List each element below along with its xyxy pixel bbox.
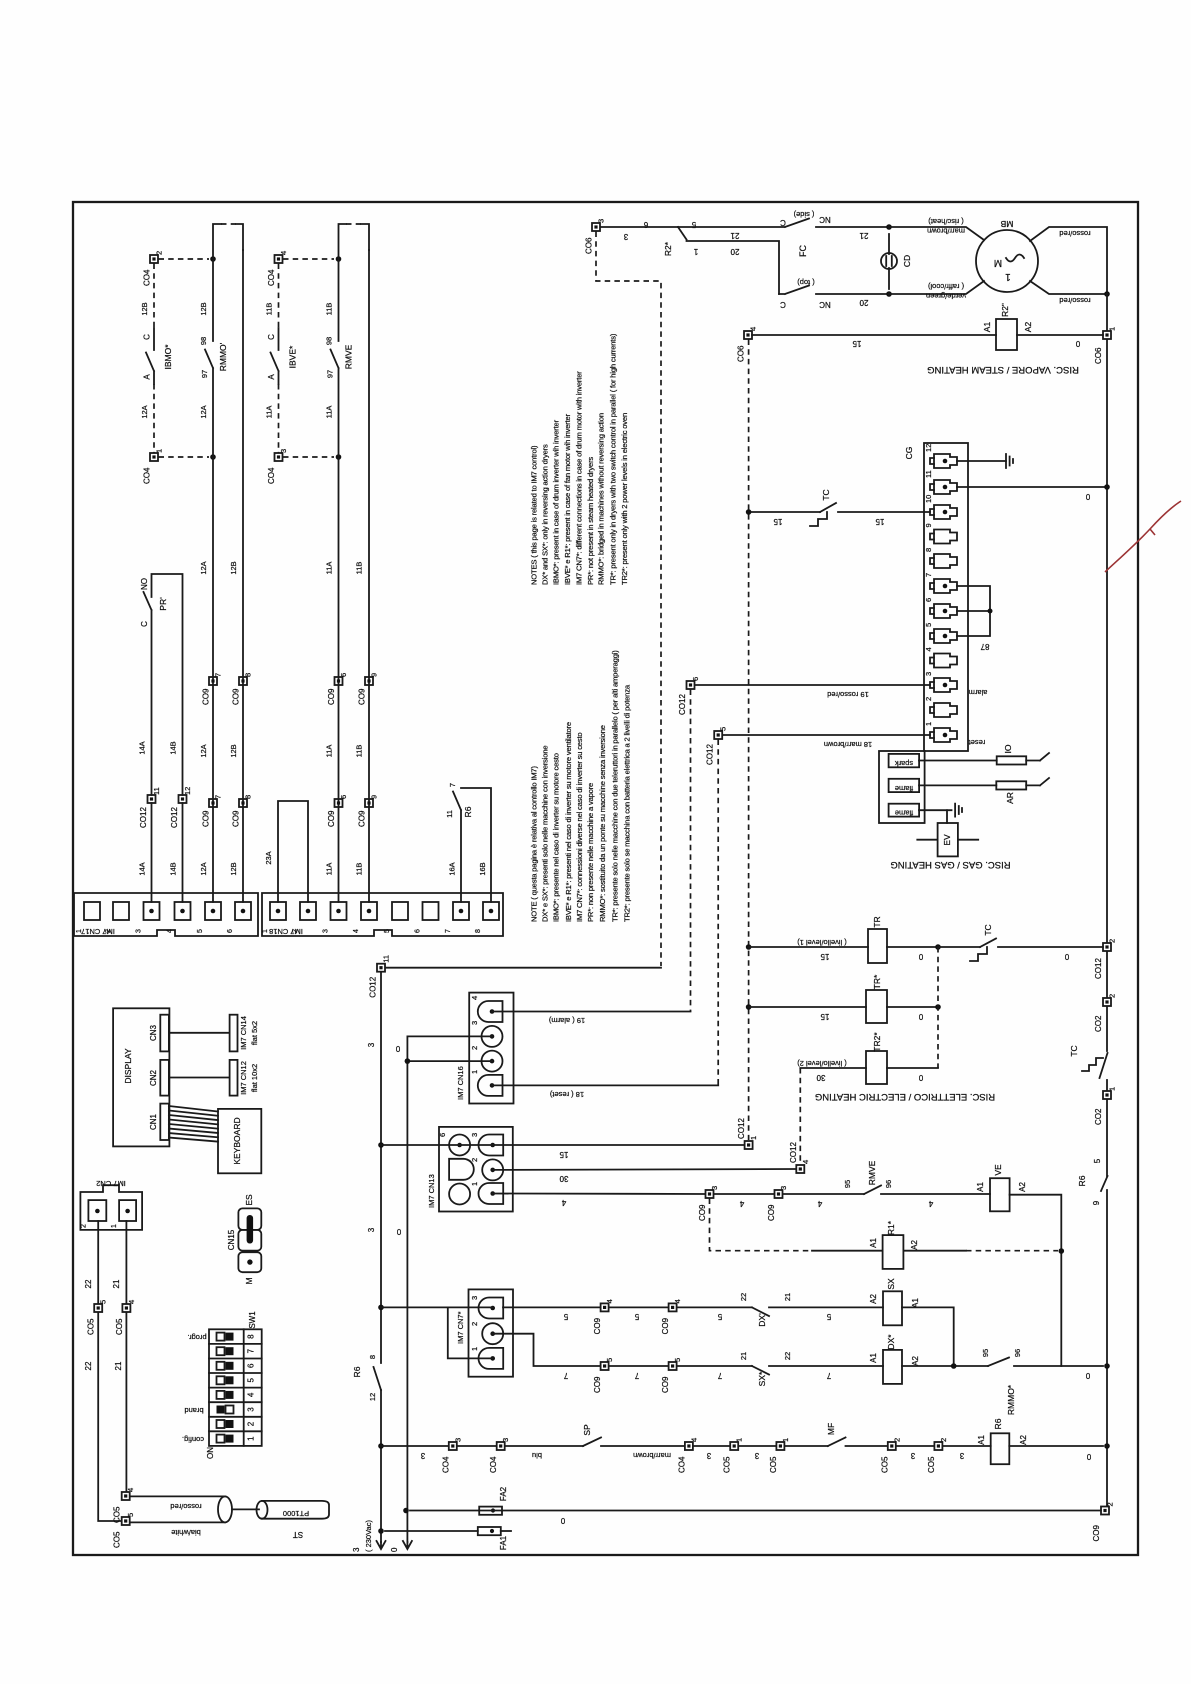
connector tab IM7 CN12 (230, 1060, 259, 1096)
svg-text:SP: SP (582, 1424, 592, 1436)
svg-text:1: 1 (470, 1347, 479, 1351)
display board (113, 1008, 169, 1146)
wire SP row b (457, 1445, 496, 1447)
svg-text:5: 5 (634, 1312, 639, 1321)
junction TR* 0 dashed (935, 1004, 941, 1010)
relay coil DX* (869, 1334, 920, 1384)
switch IBMO* (inverter bypass) (140, 302, 173, 384)
wire SP row i (896, 1445, 934, 1447)
wire CO12-11 to dashed (386, 967, 662, 969)
svg-text:30: 30 (816, 1073, 825, 1082)
svg-text:bia/white: bia/white (171, 1528, 201, 1537)
svg-text:12A: 12A (199, 405, 208, 418)
svg-text:alarm: alarm (969, 688, 988, 697)
svg-text:TR2*: presente solo se macchin: TR2*: presente solo se macchina con batt… (622, 684, 631, 922)
connector CO4 pin 3 (sp a) (441, 1438, 462, 1473)
display tab CN1 (149, 1104, 169, 1140)
svg-text:A1: A1 (869, 1238, 878, 1248)
svg-text:IM7 CN7*: connessioni diverse: IM7 CN7*: connessioni diverse nel caso d… (575, 733, 584, 922)
junction rail RMMO bottom (210, 454, 216, 460)
svg-text:0: 0 (918, 1073, 923, 1082)
spark output box (889, 754, 920, 768)
CG terminal 12 (924, 444, 957, 468)
svg-text:R1*: R1* (886, 1220, 896, 1235)
wire 22 lower (98, 1313, 121, 1522)
svg-text:8: 8 (244, 673, 253, 677)
relay contact R6 (in bus) (1077, 1158, 1108, 1205)
svg-text:IBMO*: present in case of drum: IBMO*: present in case of drum inverter … (552, 419, 561, 585)
svg-text:FA1: FA1 (499, 1535, 508, 1550)
wire 5 row d (769, 1306, 883, 1308)
svg-text:15: 15 (820, 952, 829, 961)
svg-text:CO6: CO6 (1094, 347, 1103, 364)
svg-text:2: 2 (81, 1224, 88, 1228)
svg-text:1: 1 (470, 1070, 479, 1074)
svg-text:0: 0 (918, 1012, 923, 1021)
svg-text:10: 10 (924, 495, 933, 503)
svg-text:21: 21 (739, 1352, 748, 1360)
svg-text:CO9: CO9 (1092, 1525, 1101, 1542)
fuse FA2 (410, 1486, 508, 1514)
gas control box outline (879, 751, 925, 823)
svg-text:6: 6 (415, 929, 422, 933)
svg-text:NOTE ( questa pagina è relati: NOTE ( questa pagina è relativa al contr… (529, 766, 538, 922)
flame output box 1 (889, 779, 920, 793)
svg-text:96: 96 (1013, 1349, 1022, 1357)
svg-text:7: 7 (826, 1371, 831, 1380)
flame resistor AR with electrode (919, 778, 1049, 804)
junction TR feed (746, 944, 752, 950)
svg-text:marr/brown: marr/brown (633, 1451, 671, 1460)
sensor PT1000 (ST) (232, 1501, 329, 1539)
svg-text:3: 3 (352, 1547, 361, 1552)
dashed branch IBMO* column upper (153, 264, 155, 329)
wire motor top lead (889, 227, 984, 240)
thermostat TC (steam) (749, 489, 930, 526)
wire 4 row c (783, 1193, 864, 1195)
svg-text:TR*: TR* (872, 974, 882, 989)
svg-text:5: 5 (126, 1513, 135, 1517)
svg-text:CO5: CO5 (927, 1456, 936, 1473)
svg-text:1: 1 (155, 449, 164, 453)
junction motor bottom (886, 291, 892, 297)
svg-text:CO5: CO5 (880, 1456, 889, 1473)
svg-text:21: 21 (783, 1293, 792, 1301)
wire CN16-2 to bus (410, 1060, 492, 1062)
wire 7 row b (609, 1365, 668, 1367)
svg-text:5: 5 (717, 1312, 722, 1321)
svg-text:7: 7 (247, 1348, 256, 1353)
svg-text:1: 1 (247, 1436, 256, 1441)
junction TR* feed (746, 1004, 752, 1010)
svg-text:CO5: CO5 (113, 1531, 122, 1548)
svg-text:5: 5 (247, 1378, 256, 1383)
wire 30 CN13-2 (493, 1168, 796, 1171)
svg-text:CO12: CO12 (139, 807, 148, 828)
svg-text:3: 3 (453, 1438, 462, 1442)
svg-text:flat 10x2: flat 10x2 (250, 1064, 259, 1092)
svg-text:15: 15 (852, 339, 861, 348)
svg-text:CG: CG (904, 447, 914, 460)
svg-text:1: 1 (924, 722, 933, 726)
svg-text:2: 2 (470, 1158, 479, 1162)
svg-text:11: 11 (152, 787, 161, 795)
red pen mark artifact (1105, 501, 1181, 572)
svg-text:( side): ( side) (793, 210, 814, 219)
svg-text:9: 9 (1092, 1200, 1101, 1205)
wire 5 row b (609, 1306, 668, 1308)
svg-text:CO5: CO5 (115, 1318, 124, 1335)
terminal strip CG outline (924, 443, 968, 751)
svg-text:4: 4 (561, 1198, 566, 1207)
svg-text:RMMO*: RMMO* (1006, 1384, 1016, 1415)
connector IM7 CN7* (456, 1289, 513, 1376)
svg-text:4: 4 (167, 929, 174, 933)
svg-text:1: 1 (1108, 1087, 1117, 1091)
svg-text:4: 4 (689, 1438, 698, 1442)
svg-text:22: 22 (84, 1361, 93, 1370)
relay coil TR2* (866, 1032, 887, 1084)
switch SP (door) (582, 1424, 601, 1446)
svg-text:8: 8 (247, 1334, 256, 1339)
svg-text:3: 3 (910, 1451, 915, 1460)
thermostat TC (electric, in bus) (1069, 1045, 1108, 1078)
wire rosso/red top (1030, 227, 1107, 294)
svg-text:C: C (140, 621, 149, 627)
svg-text:4: 4 (928, 1199, 933, 1208)
junction 3 bus FA1 (378, 1528, 384, 1534)
dashed wire CO9-3 to R1* (710, 1199, 813, 1251)
svg-text:M: M (244, 1277, 254, 1284)
svg-text:5: 5 (924, 623, 933, 627)
connector IM7 CN18 (262, 893, 503, 936)
svg-text:ON: ON (206, 1447, 215, 1459)
relay coil R6 (977, 1418, 1028, 1464)
svg-text:7: 7 (448, 783, 457, 787)
svg-text:CN15: CN15 (227, 1229, 236, 1250)
svg-text:A2: A2 (869, 1294, 878, 1304)
svg-text:verde/green: verde/green (926, 292, 966, 301)
switch RMMO* (aux contact) (981, 1349, 1103, 1415)
svg-text:1: 1 (470, 1182, 479, 1186)
svg-text:3: 3 (136, 929, 143, 933)
svg-text:CN2: CN2 (149, 1069, 158, 1086)
junction bus R6coil (1104, 1443, 1110, 1449)
svg-text:reset: reset (968, 738, 986, 747)
junction SX/DX* (951, 1363, 957, 1369)
svg-text:19 ( alarm): 19 ( alarm) (548, 1016, 585, 1025)
connector CO9 pin 8 (upper) (232, 673, 253, 705)
CG terminal 3 (924, 672, 957, 692)
svg-text:IM7 CN7*: IM7 CN7* (456, 1311, 465, 1344)
svg-text:TR: TR (872, 916, 882, 927)
wire 15 TR* (749, 1006, 866, 1008)
temperature probe sheath (130, 1496, 232, 1537)
svg-text:CO12: CO12 (789, 1142, 798, 1163)
svg-text:3: 3 (710, 1186, 719, 1190)
svg-text:11B: 11B (265, 303, 274, 316)
wire SP row f (739, 1445, 776, 1447)
CG terminal 11 (924, 470, 957, 494)
svg-text:3: 3 (367, 1227, 376, 1232)
dashed wire CO12-5 to CN16-1 (717, 740, 719, 1086)
svg-text:12B: 12B (229, 744, 238, 757)
bus 3 vertical (230V line) (380, 972, 382, 1542)
dashed wire TR2* to CO12-4 (799, 1068, 801, 1163)
svg-text:progr.: progr. (187, 1333, 206, 1342)
svg-text:( livello/level 2): ( livello/level 2) (797, 1059, 847, 1068)
connector CO5 pin 2 (a) (880, 1438, 901, 1473)
svg-text:15: 15 (773, 517, 782, 526)
rail 11A lower (338, 457, 340, 902)
connector CO6 pin 1 (on bus) (1094, 327, 1117, 364)
svg-text:A1: A1 (976, 1182, 985, 1192)
svg-text:TR2*: present only with 2 powe: TR2*: present only with 2 power levels i… (620, 413, 629, 585)
connector CO5 pin 1 (a) (723, 1438, 744, 1473)
flat cable CN2-CN12 (169, 1077, 230, 1079)
svg-text:CN3: CN3 (149, 1024, 158, 1041)
connector CO9 pin 9 (upper) (358, 673, 379, 705)
svg-text:A2: A2 (1019, 1435, 1028, 1445)
svg-text:SX: SX (886, 1278, 896, 1290)
svg-text:18 marr/brown: 18 marr/brown (824, 740, 872, 749)
svg-text:98: 98 (325, 337, 334, 345)
wire SP row c (505, 1445, 583, 1447)
connector CO5 pin 5 (upper) (87, 1300, 108, 1335)
svg-text:CO5: CO5 (723, 1456, 732, 1473)
junction rail RMVE bottom (336, 454, 342, 460)
svg-text:3: 3 (470, 1296, 479, 1300)
svg-text:6: 6 (438, 1133, 447, 1137)
svg-text:rosso/red: rosso/red (170, 1502, 201, 1511)
connector CO9 pin 6 (upper) (327, 673, 348, 705)
svg-text:16A: 16A (448, 862, 457, 875)
svg-text:22: 22 (739, 1293, 748, 1301)
junction rail RMMO top (210, 256, 216, 262)
svg-text:2: 2 (470, 1322, 479, 1326)
switch SX* (reversing contact) (739, 1352, 792, 1387)
svg-text:NC: NC (819, 215, 831, 224)
svg-text:TR2*: TR2* (872, 1032, 882, 1052)
svg-text:7: 7 (634, 1371, 639, 1380)
wire 15 steam coil (752, 334, 996, 336)
wire R1* A1 (812, 1250, 883, 1252)
relay contact R2* (changeover blade) (663, 227, 687, 256)
svg-text:PR*: not present in steam heat: PR*: not present in steam heated dryers (586, 457, 595, 585)
svg-text:11: 11 (382, 955, 391, 963)
svg-text:19 rosso/red: 19 rosso/red (827, 690, 869, 699)
svg-text:A2: A2 (911, 1356, 920, 1366)
svg-text:C: C (780, 300, 786, 309)
svg-text:3: 3 (247, 1407, 256, 1412)
svg-text:1: 1 (111, 1224, 118, 1228)
connector CO9 pin 7 (lower) (202, 795, 223, 827)
relay coil VE (976, 1164, 1027, 1211)
rail 14A lower (151, 803, 153, 902)
svg-text:CO9: CO9 (232, 810, 241, 827)
svg-text:R2*: R2* (663, 241, 673, 256)
svg-text:14A: 14A (138, 741, 147, 754)
svg-text:5: 5 (719, 727, 728, 731)
connector CO9 pin 4 (row5 a) (593, 1299, 614, 1334)
spark resistor IO with electrode (919, 744, 1049, 764)
wire 21 lower (125, 1313, 127, 1492)
svg-text:CO5: CO5 (87, 1318, 96, 1335)
svg-text:20: 20 (859, 298, 868, 307)
svg-text:0: 0 (1085, 492, 1090, 501)
connector CO6 pin 3 (585, 219, 606, 254)
svg-text:CO9: CO9 (698, 1204, 707, 1221)
CG terminal 5 (924, 623, 957, 643)
svg-text:21: 21 (114, 1361, 123, 1370)
svg-text:30: 30 (559, 1174, 568, 1183)
svg-text:0: 0 (1085, 1371, 1090, 1380)
svg-text:7: 7 (563, 1371, 568, 1380)
connector CO5 pin 1 (b) (769, 1438, 790, 1473)
page border frame (73, 202, 1138, 1555)
svg-text:R6: R6 (352, 1366, 362, 1377)
svg-text:8: 8 (475, 929, 482, 933)
switch RMVE (fan relay contact) (325, 259, 354, 457)
dashed branch IBVE* column lower (278, 384, 280, 453)
dashed wire CO4-3 to rail (283, 456, 334, 458)
dashed wire R1* A2 tie (966, 1250, 1058, 1252)
svg-text:RMMO*: bridged in machines wit: RMMO*: bridged in machines without rever… (597, 413, 606, 585)
relay coil R2" steam heating (982, 303, 1033, 350)
svg-text:CO2: CO2 (1094, 1108, 1103, 1125)
svg-text:97: 97 (326, 370, 335, 378)
connector CO12 pin 12 (ladder) (170, 787, 192, 828)
switch MF (micro filter) (826, 1423, 846, 1446)
dip switch SW1 (182, 1311, 262, 1459)
dashed wire CO12-6 to CN16-4 (690, 690, 692, 1012)
svg-text:5: 5 (673, 1358, 682, 1362)
svg-text:TR*: presente solo nelle macch: TR*: presente solo nelle macchine con du… (610, 650, 619, 922)
svg-text:SW1: SW1 (248, 1311, 257, 1329)
connector IM7 CN2 (80, 1179, 142, 1230)
CG terminal 9 (924, 523, 957, 543)
svg-text:0: 0 (395, 1044, 400, 1053)
motor M1 (MB) (976, 219, 1038, 292)
svg-text:5: 5 (197, 929, 204, 933)
svg-text:CD: CD (902, 255, 912, 267)
svg-text:CO9: CO9 (593, 1376, 602, 1393)
wire R1* A2 (903, 1250, 966, 1252)
dashed tie TR outputs (937, 947, 939, 1068)
connector CO12 pin 4 (789, 1142, 810, 1173)
junction 3 bus SP (378, 1443, 384, 1449)
svg-text:6: 6 (227, 929, 234, 933)
svg-text:2: 2 (247, 1421, 256, 1426)
svg-text:11A: 11A (325, 745, 334, 758)
svg-text:AR: AR (1005, 792, 1015, 804)
svg-text:1: 1 (735, 1438, 744, 1442)
svg-text:7: 7 (445, 929, 452, 933)
svg-text:5: 5 (99, 1300, 108, 1304)
svg-text:0: 0 (1064, 952, 1069, 961)
connector CO5 pin 4 (sensor) (113, 1488, 136, 1523)
svg-text:3: 3 (754, 1451, 759, 1460)
wire 0 steam coil to bus (1017, 334, 1103, 336)
bus 0 right segment 5 (1106, 1080, 1108, 1091)
svg-text:7: 7 (924, 573, 933, 577)
svg-text:0: 0 (918, 952, 923, 961)
svg-text:11A: 11A (325, 863, 334, 876)
svg-text:PR*: non presente nelle macchi: PR*: non presente nelle macchine a vapor… (586, 783, 595, 922)
svg-text:TC: TC (983, 924, 993, 935)
svg-text:2: 2 (1106, 1502, 1115, 1506)
svg-text:A: A (267, 374, 276, 380)
svg-text:RMVE: RMVE (867, 1160, 877, 1185)
svg-text:C: C (780, 218, 786, 227)
svg-text:CO12: CO12 (369, 976, 378, 997)
bus 0 right segment 7 (1106, 1190, 1108, 1506)
svg-text:2: 2 (924, 697, 933, 701)
connector CO4 pin 4 (267, 251, 288, 286)
svg-text:3: 3 (924, 672, 933, 676)
svg-text:2: 2 (155, 251, 164, 255)
svg-text:5: 5 (1093, 1158, 1102, 1163)
svg-text:RISC. VAPORE / STEAM HEATING: RISC. VAPORE / STEAM HEATING (927, 364, 1079, 375)
wire 0 CG11 to bus (957, 486, 1104, 488)
wire motor bottom lead (889, 281, 984, 294)
connector CO9 pin 5 (row7 b) (661, 1358, 682, 1393)
svg-text:12A: 12A (199, 561, 208, 574)
svg-text:FC: FC (798, 245, 808, 257)
svg-text:21: 21 (730, 231, 739, 240)
connector CO9 pin 8 (lower) (232, 795, 253, 827)
rail 14B lower (182, 803, 184, 902)
relay coil R1* (869, 1220, 919, 1269)
svg-text:IM7 CN14: IM7 CN14 (239, 1016, 248, 1050)
svg-text:4: 4 (739, 1199, 744, 1208)
svg-text:4: 4 (126, 1488, 135, 1492)
svg-text:12A: 12A (199, 744, 208, 757)
svg-text:CO6: CO6 (585, 237, 594, 254)
svg-text:CO9: CO9 (593, 1317, 602, 1334)
svg-text:DX* and SX*: only in reversing: DX* and SX*: only in reversing action dr… (541, 444, 550, 585)
svg-text:4: 4 (801, 1160, 810, 1164)
svg-text:PR': PR' (158, 597, 168, 611)
connector CO12 pin 11 (ladder) (139, 787, 161, 828)
junction bus RMMO* (1104, 1363, 1110, 1369)
switch RMVE (fan aux contact) (843, 1160, 893, 1194)
svg-text:R2": R2" (1000, 303, 1010, 317)
svg-text:22: 22 (84, 1279, 93, 1288)
svg-text:brand: brand (184, 1406, 203, 1415)
flame output box 2 (889, 804, 920, 818)
wire 0 bottom long (502, 1510, 1101, 1512)
wire CN7-1 jog (448, 1307, 493, 1358)
relay coil SX (869, 1278, 920, 1325)
supply arrow 0 (403, 1541, 412, 1549)
connector IM7 CN17 (74, 893, 258, 936)
svg-text:A1: A1 (977, 1435, 986, 1445)
svg-text:IBVE*: IBVE* (288, 345, 298, 368)
svg-text:0: 0 (396, 1227, 401, 1236)
svg-text:CO9: CO9 (202, 688, 211, 705)
svg-text:CO5: CO5 (113, 1506, 122, 1523)
junction right bus top (1104, 291, 1110, 297)
svg-text:C: C (143, 334, 152, 340)
svg-text:IBVE* e R1*: present in case: IBVE* e R1*: present in case of fan moto… (563, 413, 572, 585)
connector CO4 pin 4 (sp) (677, 1438, 698, 1473)
junction 3 bus CN13 (378, 1142, 384, 1148)
connector CO12 pin 11 (bus head) (369, 955, 391, 998)
dashed bus CO6-4 to TR/CO12-1 (748, 340, 750, 1141)
svg-text:6: 6 (339, 673, 348, 677)
svg-text:18 ( reset): 18 ( reset) (549, 1090, 584, 1099)
